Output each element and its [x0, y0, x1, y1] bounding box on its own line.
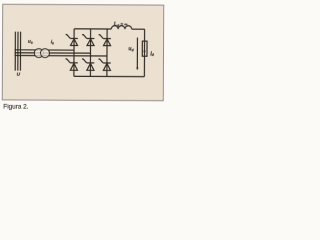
- transformer T: [34, 49, 43, 58]
- svg-text:us: us: [28, 40, 33, 45]
- thyristor T4: [65, 59, 77, 70]
- thyristor T2: [98, 59, 110, 70]
- bridge leg 3: [106, 29, 108, 76]
- current arrow id: [143, 51, 146, 54]
- top bus right: [132, 28, 145, 30]
- inductor Ld: [111, 26, 131, 30]
- wire phase 2: [14, 52, 90, 54]
- bottom bus: [74, 75, 144, 77]
- svg-text:Figura 2.: Figura 2.: [3, 104, 28, 111]
- load branch wire: [143, 29, 145, 76]
- thyristor T3: [82, 35, 94, 46]
- top bus: [74, 28, 111, 30]
- thyristor T5: [99, 35, 111, 46]
- bridge leg 1: [73, 29, 75, 76]
- bridge leg 2: [89, 29, 91, 76]
- figure frame: [2, 4, 163, 100]
- wire phase 1: [15, 49, 74, 51]
- load box: [142, 41, 147, 56]
- voltage arrow ud: [136, 38, 138, 69]
- wire phase 3: [14, 55, 106, 57]
- three-phase supply bus: [15, 32, 20, 71]
- thyristor T6: [82, 59, 94, 70]
- thyristor T1: [66, 35, 78, 46]
